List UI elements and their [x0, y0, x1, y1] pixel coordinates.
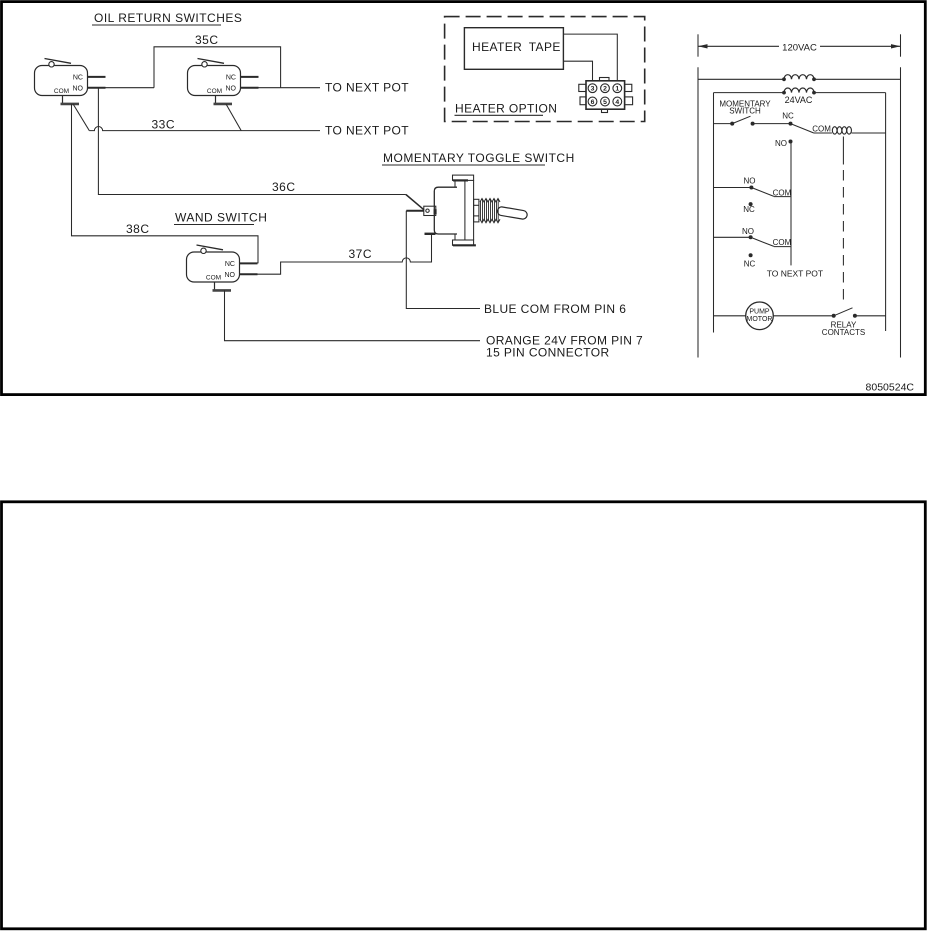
- NO terminal to bus: [775, 139, 793, 148]
- svg-text:5: 5: [603, 99, 607, 106]
- svg-text:WAND SWITCH: WAND SWITCH: [175, 211, 267, 225]
- svg-text:NO: NO: [742, 227, 754, 236]
- title WAND SWITCH: [174, 211, 267, 225]
- svg-text:NO: NO: [775, 139, 787, 148]
- inner left rail: [713, 93, 715, 333]
- wire 36C: [98, 88, 406, 195]
- svg-text:COM: COM: [773, 188, 792, 197]
- pump motor M1: [746, 302, 774, 330]
- wire 35C: [154, 47, 281, 88]
- border frame bottom figure: [2, 502, 926, 929]
- svg-text:2: 2: [603, 86, 607, 93]
- wire 38C: [72, 104, 259, 264]
- inner right rail: [885, 93, 887, 331]
- svg-text:SWITCH: SWITCH: [729, 107, 761, 116]
- transformer secondary: [714, 88, 886, 105]
- svg-text:37C: 37C: [349, 247, 373, 261]
- svg-text:NC: NC: [743, 205, 755, 214]
- svg-text:15 PIN CONNECTOR: 15 PIN CONNECTOR: [486, 346, 610, 360]
- svg-text:1: 1: [615, 86, 619, 93]
- border frame top figure: [2, 2, 926, 395]
- svg-text:HEATER OPTION: HEATER OPTION: [455, 102, 557, 116]
- svg-text:MOMENTARY TOGGLE SWITCH: MOMENTARY TOGGLE SWITCH: [383, 151, 575, 165]
- svg-text:33C: 33C: [152, 118, 176, 132]
- wire 37C with hop: [258, 235, 432, 274]
- svg-text:COM: COM: [773, 238, 792, 247]
- svg-text:NC: NC: [744, 260, 756, 269]
- toggle lower terminal: [425, 233, 436, 235]
- label MOMENTARY SWITCH: [719, 99, 771, 115]
- svg-text:MOTOR: MOTOR: [747, 316, 773, 323]
- pump motor rung: [714, 315, 886, 317]
- svg-text:PUMP: PUMP: [749, 309, 770, 316]
- title MOMENTARY TOGGLE SWITCH: [382, 151, 575, 165]
- title OIL RETURN SWITCHES: [92, 11, 242, 25]
- svg-text:36C: 36C: [272, 180, 296, 194]
- wire 33C with hop: [89, 127, 320, 131]
- oil return switch S1: [35, 59, 106, 104]
- svg-text:NC: NC: [782, 112, 794, 121]
- wire S1 COM diagonal: [73, 104, 89, 131]
- heater option dashed box: [445, 17, 645, 122]
- oil switch contact B: [714, 227, 792, 268]
- right rail: [900, 67, 902, 357]
- heater wire to pin 1: [563, 34, 617, 81]
- transformer primary: [698, 75, 901, 82]
- svg-text:HEATER TAPE: HEATER TAPE: [472, 40, 561, 54]
- toggle threaded bushing: [480, 199, 500, 223]
- svg-text:TO NEXT POT: TO NEXT POT: [325, 81, 409, 95]
- svg-text:NO: NO: [744, 176, 756, 185]
- svg-text:8050524C: 8050524C: [866, 382, 915, 394]
- connector J2: [579, 78, 633, 113]
- svg-text:BLUE COM FROM PIN 6: BLUE COM FROM PIN 6: [484, 302, 626, 316]
- label HEATER OPTION: [455, 102, 558, 116]
- svg-text:6: 6: [591, 99, 595, 106]
- wire wand COM down to orange: [225, 290, 481, 340]
- wand switch S3: [187, 245, 258, 290]
- heater wire to pin 3: [563, 61, 592, 81]
- wire S2 COM diagonal to 33C: [226, 104, 241, 131]
- left rail: [697, 67, 699, 357]
- relay contacts: [822, 308, 865, 337]
- oil return switch S2: [188, 59, 259, 104]
- relay coil K1: [812, 125, 885, 134]
- momentary switch contact: [714, 112, 814, 133]
- svg-text:4: 4: [615, 99, 619, 106]
- svg-text:24VAC: 24VAC: [785, 95, 813, 105]
- svg-text:3: 3: [591, 86, 595, 93]
- momentary toggle switch body: [434, 175, 479, 245]
- wire S1 NO to 35C: [106, 87, 155, 89]
- dimension 120VAC: [698, 34, 901, 56]
- wire S2 NO to next pot: [259, 87, 321, 89]
- heater tape box: [464, 28, 563, 70]
- svg-text:38C: 38C: [126, 222, 150, 236]
- wire blue com vertical: [406, 211, 480, 309]
- svg-text:120VAC: 120VAC: [782, 42, 817, 53]
- svg-text:35C: 35C: [195, 33, 219, 47]
- svg-text:OIL RETURN SWITCHES: OIL RETURN SWITCHES: [94, 11, 242, 25]
- toggle upper terminal: [406, 206, 436, 215]
- relay link dashed: [842, 137, 844, 302]
- svg-text:CONTACTS: CONTACTS: [822, 328, 865, 337]
- svg-text:COM: COM: [812, 125, 831, 134]
- oil switch contact A: [714, 176, 792, 214]
- toggle lever bat: [497, 206, 528, 219]
- wire 36C diagonal into toggle terminal: [406, 195, 424, 210]
- svg-text:TO NEXT POT: TO NEXT POT: [325, 124, 409, 138]
- svg-text:TO NEXT POT: TO NEXT POT: [767, 269, 823, 279]
- bus to next pot: [790, 142, 792, 266]
